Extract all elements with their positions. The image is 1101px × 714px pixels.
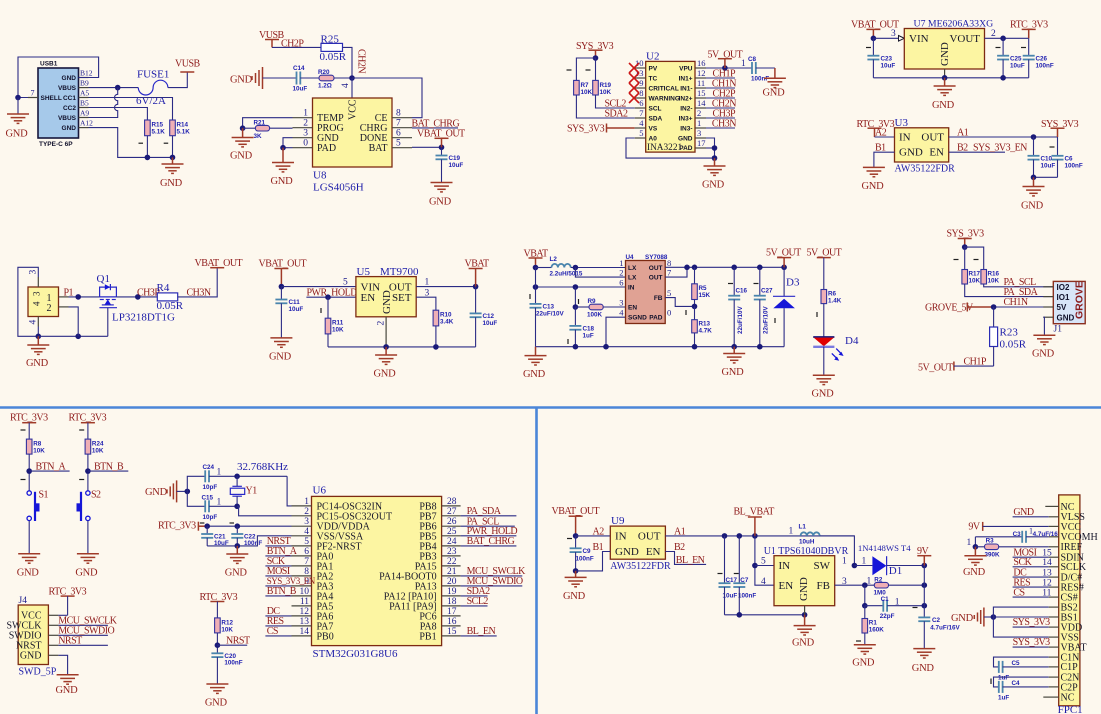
- wire VPU to 5V_OUT: [706, 67, 752, 69]
- svg-text:BL_EN: BL_EN: [676, 555, 705, 566]
- svg-text:EN: EN: [628, 305, 637, 312]
- svg-text:5.1K: 5.1K: [152, 129, 166, 136]
- svg-text:GND: GND: [225, 567, 248, 578]
- svg-text:SW: SW: [814, 560, 831, 572]
- svg-text:VS: VS: [649, 125, 658, 132]
- svg-text:1: 1: [741, 59, 746, 69]
- svg-text:PAD: PAD: [649, 315, 663, 322]
- svg-text:OUT: OUT: [921, 132, 944, 144]
- pin1 dash C9: [567, 538, 572, 540]
- svg-text:3: 3: [619, 298, 623, 308]
- svg-text:A0: A0: [649, 135, 658, 142]
- wire IN2+ CH2P: [706, 97, 735, 99]
- svg-text:SET: SET: [392, 292, 412, 304]
- svg-text:R7: R7: [581, 82, 590, 89]
- wire PA_SDA u6: [461, 515, 517, 517]
- capacitor C10: [1033, 137, 1035, 156]
- svg-text:10uF: 10uF: [289, 306, 304, 313]
- svg-text:C25: C25: [1010, 56, 1022, 63]
- svg-text:R6: R6: [828, 291, 837, 298]
- svg-text:8: 8: [396, 109, 401, 119]
- wire OUT to VBAT: [416, 286, 475, 288]
- pin1 dash C16: [728, 283, 733, 285]
- svg-text:2: 2: [303, 119, 308, 129]
- svg-text:10uF: 10uF: [483, 320, 498, 327]
- svg-text:WARNING: WARNING: [649, 95, 680, 102]
- wire PWR_HOLD u6: [461, 535, 517, 537]
- wire 9V to VCC: [983, 525, 1049, 527]
- svg-text:1N4148WS T4: 1N4148WS T4: [858, 543, 911, 553]
- wire MCU_SWCLK u6: [461, 575, 523, 577]
- svg-text:R3: R3: [986, 538, 995, 545]
- node PAD junction: [712, 145, 718, 151]
- ground under C11: [270, 338, 292, 347]
- svg-text:D4: D4: [845, 335, 859, 347]
- capacitor C14: [296, 72, 298, 85]
- wire A1 OUT to SYS_3V3: [949, 136, 1058, 138]
- svg-text:GND: GND: [56, 685, 79, 696]
- no-connect X CRITICAL: [629, 83, 639, 93]
- node R3 junction: [973, 544, 979, 550]
- wire VCOMH with C3: [975, 536, 1022, 538]
- svg-text:GND: GND: [852, 658, 875, 669]
- svg-text:0.05R: 0.05R: [320, 51, 347, 63]
- resistor R4: [157, 293, 177, 301]
- svg-text:11: 11: [697, 78, 705, 88]
- capacitor C2: [918, 616, 930, 618]
- resistor R17: [962, 270, 968, 285]
- wire VBAT down c13: [535, 268, 537, 304]
- ground under R21 junction: [242, 128, 244, 137]
- wire to R17 R16: [965, 247, 984, 269]
- svg-text:SDA: SDA: [649, 115, 663, 122]
- svg-text:10pF: 10pF: [203, 514, 218, 521]
- wire RES#: [1013, 586, 1049, 588]
- pin1 dash C7: [734, 573, 739, 575]
- U6 left stubs: [292, 497, 312, 637]
- svg-text:5: 5: [304, 537, 309, 547]
- node A0 junction: [712, 155, 718, 161]
- wire BTN_B u6: [265, 595, 291, 597]
- IC U7 ME6206A33XG: [904, 19, 993, 78]
- svg-text:B1: B1: [593, 542, 604, 553]
- node C18 bus junction: [573, 344, 579, 350]
- svg-text:R16: R16: [988, 271, 1000, 278]
- ground under C13: [535, 347, 537, 356]
- capacitor C3: [1021, 531, 1023, 543]
- svg-text:L2: L2: [550, 256, 558, 263]
- resistor R1: [864, 606, 866, 619]
- capacitor C21: [206, 526, 208, 534]
- wire DC#: [1013, 576, 1049, 578]
- svg-text:2: 2: [377, 321, 387, 326]
- wire IN vertical: [755, 536, 774, 585]
- svg-text:10K: 10K: [988, 278, 1000, 285]
- node C16 bus junction: [731, 344, 737, 350]
- resistor R8: [26, 439, 32, 454]
- svg-text:10uF: 10uF: [449, 162, 464, 169]
- svg-text:R24: R24: [92, 441, 104, 448]
- resistor R24: [85, 439, 91, 454]
- svg-text:3.4K: 3.4K: [440, 319, 454, 326]
- wire VCC j4: [58, 614, 67, 616]
- wire VUSB to R25: [272, 46, 321, 48]
- svg-text:EN: EN: [929, 147, 944, 159]
- svg-text:LGS4056H: LGS4056H: [313, 182, 364, 194]
- wire SY bottom bus: [536, 346, 785, 348]
- svg-text:VPU: VPU: [679, 65, 693, 72]
- node pin1 junction: [75, 294, 81, 300]
- svg-text:AW35122FDR: AW35122FDR: [610, 561, 671, 572]
- svg-text:23: 23: [447, 547, 457, 557]
- svg-text:SHELL: SHELL: [41, 95, 62, 102]
- svg-text:0: 0: [667, 308, 671, 318]
- pin1 mark C4: [990, 679, 992, 685]
- svg-text:VBAT_OUT: VBAT_OUT: [552, 506, 600, 517]
- node C22 top junction: [235, 523, 241, 529]
- svg-text:R13: R13: [699, 321, 711, 328]
- node BL_VBAT junction: [752, 533, 758, 539]
- svg-text:EN: EN: [361, 292, 376, 304]
- svg-text:OUT: OUT: [649, 265, 663, 272]
- svg-text:17: 17: [697, 138, 706, 148]
- node C10 junction: [1031, 134, 1037, 140]
- svg-text:A9: A9: [80, 109, 89, 118]
- svg-text:16: 16: [697, 58, 706, 68]
- wire C15 bottom loop: [187, 491, 205, 506]
- resistor R6: [821, 290, 827, 304]
- svg-text:25: 25: [447, 527, 457, 537]
- power flag VUSB: [180, 71, 194, 73]
- capacitor C11: [280, 287, 282, 300]
- node C9 bottom junction: [573, 568, 579, 574]
- svg-text:IN: IN: [615, 530, 627, 542]
- svg-text:LP3218DT1G: LP3218DT1G: [112, 312, 175, 324]
- svg-text:15: 15: [697, 88, 706, 98]
- connector J4: [7, 596, 59, 665]
- wire R25 to CH2N node: [343, 47, 353, 78]
- svg-text:C15: C15: [202, 495, 214, 502]
- node R9 junction: [573, 304, 579, 310]
- no-connect X WARNING: [629, 93, 639, 103]
- svg-text:22pF: 22pF: [880, 613, 895, 620]
- svg-text:15K: 15K: [699, 292, 711, 299]
- pin1 dash R9: [578, 299, 580, 304]
- svg-text:4.7K: 4.7K: [699, 328, 713, 335]
- svg-text:TYPE-C 6P: TYPE-C 6P: [39, 141, 73, 148]
- wire B1 u9: [576, 552, 611, 571]
- svg-text:SYS_3V3: SYS_3V3: [567, 124, 605, 135]
- capacitor C20: [211, 652, 223, 654]
- svg-text:5: 5: [761, 557, 766, 567]
- node 9V junction: [922, 563, 928, 569]
- svg-text:B5: B5: [80, 99, 89, 108]
- svg-text:A12: A12: [80, 119, 93, 128]
- svg-text:U5: U5: [357, 266, 371, 278]
- svg-text:GND: GND: [6, 129, 29, 140]
- svg-text:INA3221: INA3221: [647, 143, 682, 153]
- svg-text:R21: R21: [254, 119, 266, 126]
- svg-text:4: 4: [29, 320, 39, 325]
- svg-text:GND: GND: [951, 613, 974, 624]
- wire PWR_HOLD to EN: [306, 296, 356, 298]
- svg-text:U9: U9: [611, 515, 625, 527]
- svg-text:SGND: SGND: [628, 315, 647, 322]
- svg-text:1uF: 1uF: [998, 675, 1009, 682]
- wire CC1 to R14: [89, 98, 173, 121]
- inductor L1: [801, 532, 820, 536]
- node P1 gnd junction: [36, 334, 42, 340]
- svg-text:C4: C4: [1012, 680, 1021, 687]
- node shell junction: [15, 95, 21, 101]
- wire R16 PA_SCL: [984, 284, 1054, 287]
- wire 5V pin: [994, 306, 1054, 308]
- node C7 junction: [737, 533, 743, 539]
- pin1 dash D3: [774, 318, 776, 323]
- capacitor C15: [204, 500, 206, 512]
- node IN junction: [752, 563, 758, 569]
- ground under D4: [813, 375, 835, 384]
- node IN junction c18: [573, 284, 579, 290]
- svg-text:GND: GND: [615, 546, 639, 558]
- svg-text:L1: L1: [799, 524, 807, 531]
- wire DC u6: [265, 615, 291, 617]
- wire GND j4: [58, 655, 67, 675]
- switch S1: [27, 491, 31, 495]
- svg-text:GROVE: GROVE: [1074, 281, 1086, 319]
- svg-text:3: 3: [304, 517, 309, 527]
- svg-text:390K: 390K: [985, 552, 1001, 559]
- node BAT junction: [439, 145, 445, 151]
- ground under R3: [974, 547, 976, 556]
- node BTN_B junction: [85, 468, 91, 474]
- wire pin1 to Q1: [69, 296, 100, 298]
- svg-text:RTC_3V3: RTC_3V3: [69, 412, 107, 423]
- node R2 right junction: [922, 582, 928, 588]
- svg-text:13: 13: [300, 617, 310, 627]
- svg-text:100nF: 100nF: [576, 556, 594, 563]
- svg-text:100nF: 100nF: [1036, 63, 1054, 70]
- resistor R23: [993, 307, 995, 327]
- wire shell to gnd: [17, 98, 19, 115]
- pin1 dash R11: [320, 308, 322, 313]
- svg-text:A2: A2: [875, 128, 887, 139]
- svg-text:14: 14: [300, 627, 310, 637]
- svg-text:1: 1: [304, 497, 309, 507]
- svg-text:10K: 10K: [581, 89, 593, 96]
- pin1 dash R16: [974, 259, 979, 261]
- svg-text:2.2uH/5015: 2.2uH/5015: [550, 271, 583, 278]
- pin1 dash C27: [754, 283, 759, 285]
- svg-text:1: 1: [842, 557, 847, 567]
- svg-text:4: 4: [32, 301, 42, 306]
- svg-text:C6: C6: [1065, 156, 1074, 163]
- svg-text:PB0: PB0: [317, 631, 334, 642]
- wire TEMP loop: [243, 118, 293, 129]
- svg-text:D3: D3: [786, 277, 800, 289]
- node R11 junction: [325, 294, 331, 300]
- svg-text:IN1-: IN1-: [680, 85, 692, 92]
- svg-text:6: 6: [396, 129, 401, 139]
- svg-text:10K: 10K: [969, 278, 981, 285]
- wire FB to R2: [835, 584, 875, 586]
- svg-text:CH2N: CH2N: [356, 49, 367, 73]
- pin1 dash R14: [164, 142, 169, 144]
- wire SGND loop: [606, 317, 626, 347]
- svg-text:10uF: 10uF: [1041, 163, 1056, 170]
- pin1 dash C6: [1050, 146, 1055, 148]
- svg-text:STM32G031G8U6: STM32G031G8U6: [313, 648, 398, 660]
- wire BTN_A: [29, 470, 69, 472]
- capacitor C6: [1057, 137, 1059, 156]
- svg-text:8: 8: [667, 258, 671, 268]
- svg-text:GND: GND: [798, 577, 810, 601]
- svg-text:5.1K: 5.1K: [177, 129, 191, 136]
- svg-text:IO1: IO1: [1057, 293, 1070, 302]
- ground under U5: [385, 347, 387, 355]
- svg-text:100K: 100K: [587, 312, 603, 319]
- switch S2: [86, 491, 90, 495]
- svg-text:12: 12: [697, 68, 706, 78]
- IC U8 LGS4056H charger: [293, 98, 413, 194]
- ground under C22: [236, 546, 238, 554]
- fuse FUSE1: [138, 80, 168, 95]
- svg-text:1: 1: [303, 109, 308, 119]
- svg-text:1.4K: 1.4K: [828, 298, 842, 305]
- svg-text:C13: C13: [543, 304, 555, 311]
- svg-text:17: 17: [447, 607, 457, 617]
- wire U5 bottom bus: [328, 346, 476, 348]
- wire 9V vertical: [923, 566, 925, 618]
- ground under U2: [714, 158, 716, 166]
- wire BTN_A u6: [265, 555, 291, 557]
- wire VOUT to RTC_3V3: [985, 37, 1029, 39]
- wire gnd to C14: [263, 77, 297, 79]
- ground under C19: [431, 183, 453, 192]
- svg-text:CC1: CC1: [63, 95, 76, 102]
- wire A1 OUT u9: [665, 535, 854, 537]
- svg-text:AW35122FDR: AW35122FDR: [895, 164, 956, 175]
- svg-text:6: 6: [639, 98, 643, 108]
- ground under C9: [575, 571, 577, 578]
- node CH2N junction: [349, 75, 355, 81]
- svg-text:R10: R10: [440, 312, 452, 319]
- resistor R21: [255, 125, 269, 131]
- resistor R20: [319, 75, 334, 81]
- svg-text:2: 2: [304, 507, 309, 517]
- node VBUS junction: [115, 85, 121, 91]
- svg-text:GND: GND: [722, 367, 745, 378]
- connector J1 GROVE: [1043, 281, 1085, 334]
- wire VIN: [873, 37, 898, 39]
- svg-text:2: 2: [991, 29, 996, 39]
- svg-text:8: 8: [639, 88, 643, 98]
- pin1 dash C13: [529, 294, 531, 299]
- node SW junction: [852, 563, 858, 569]
- svg-text:VCC: VCC: [348, 99, 359, 120]
- wire BS1: [993, 616, 1048, 618]
- svg-text:VUSB: VUSB: [175, 59, 201, 70]
- wire junction to R21: [243, 127, 256, 129]
- svg-text:PWR_HOLD: PWR_HOLD: [307, 287, 358, 298]
- svg-text:1uF: 1uF: [998, 695, 1009, 702]
- capacitor C5: [998, 661, 1000, 673]
- wire OUT2: [665, 267, 687, 277]
- wire A12 gnd loop: [89, 128, 173, 158]
- svg-text:R23: R23: [1000, 327, 1019, 339]
- pin1 dash C26: [1021, 47, 1026, 49]
- wire L1 to SW: [820, 536, 855, 566]
- pin1 dash R1: [856, 640, 861, 642]
- resistor R5: [694, 267, 696, 284]
- svg-text:R14: R14: [177, 122, 189, 129]
- svg-text:1: 1: [425, 278, 430, 288]
- pin1 dash R17: [954, 259, 959, 261]
- svg-text:U6: U6: [313, 485, 327, 497]
- wire NRST j4: [58, 644, 108, 646]
- svg-text:GND: GND: [912, 663, 935, 674]
- svg-text:CS: CS: [1013, 587, 1024, 598]
- ground under R1: [854, 645, 876, 654]
- svg-text:5: 5: [667, 288, 671, 298]
- svg-text:BTN_B: BTN_B: [94, 461, 124, 472]
- svg-text:GND: GND: [932, 100, 955, 111]
- wire SCK u6: [265, 565, 291, 567]
- capacitor C27: [759, 267, 761, 295]
- svg-text:IN3-: IN3-: [680, 125, 692, 132]
- wire BTN_B: [88, 470, 128, 472]
- capacitor C8: [751, 62, 753, 74]
- svg-text:SYS_3V3: SYS_3V3: [1013, 617, 1051, 628]
- node U7 gnd stub: [942, 75, 948, 81]
- capacitor C22: [236, 526, 238, 534]
- node PAD junction: [280, 145, 286, 151]
- wire R4 to VBAT_OUT: [178, 268, 218, 297]
- svg-text:BL_EN: BL_EN: [467, 626, 496, 637]
- svg-text:GND: GND: [271, 176, 294, 187]
- IC U2 INA3221: [635, 51, 707, 154]
- svg-text:C16: C16: [736, 287, 748, 294]
- svg-text:R11: R11: [332, 320, 344, 327]
- svg-text:4.7uF/16V: 4.7uF/16V: [930, 625, 960, 632]
- svg-text:SCL2: SCL2: [467, 596, 489, 607]
- svg-text:PAD: PAD: [317, 143, 336, 154]
- node VBAT junction sy: [533, 265, 539, 271]
- wire IN1+ CH1P: [706, 77, 735, 79]
- svg-text:GND: GND: [205, 697, 228, 708]
- svg-text:RTC_3V3: RTC_3V3: [158, 521, 196, 532]
- pin1 dash R7: [567, 69, 572, 71]
- svg-text:1.2Ω: 1.2Ω: [318, 83, 332, 90]
- svg-text:SYS_3V3_EN: SYS_3V3_EN: [267, 576, 316, 586]
- svg-text:C14: C14: [293, 65, 305, 72]
- node bus junction R14: [170, 155, 176, 161]
- svg-text:R8: R8: [33, 441, 42, 448]
- svg-text:12: 12: [300, 607, 310, 617]
- node crystal bottom junction: [234, 504, 240, 510]
- svg-text:GND: GND: [429, 197, 452, 208]
- wire MCU_SWDIO: [58, 634, 108, 636]
- wire gnd port to BS1: [984, 616, 994, 618]
- section divider horizontal: [0, 406, 1101, 409]
- svg-text:A5: A5: [80, 89, 89, 98]
- node R10 bus junction: [433, 344, 439, 350]
- svg-text:R20: R20: [318, 69, 330, 76]
- resistor R3: [975, 546, 984, 548]
- svg-text:3: 3: [29, 270, 39, 275]
- svg-text:7: 7: [667, 268, 671, 278]
- svg-text:R19: R19: [600, 82, 612, 89]
